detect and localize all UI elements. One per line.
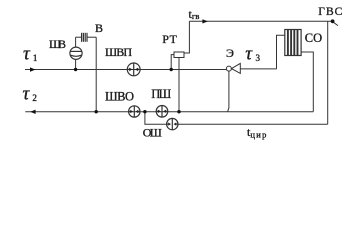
wire circulation line tcir <box>178 123 328 125</box>
node at SHV on tau1 <box>74 68 77 71</box>
wire tau1 supply line <box>25 69 226 71</box>
wire SHV stub up <box>75 37 77 47</box>
node GVS <box>331 19 335 23</box>
wire tgv hot water line <box>189 20 333 22</box>
svg-text:tцир: tцир <box>247 125 266 139</box>
svg-text:ШВП: ШВП <box>105 45 132 59</box>
wire elevator mix pipe <box>228 71 229 112</box>
orifice OSH on circulation line <box>167 118 178 129</box>
orifice SHVO on tau2 <box>129 106 140 117</box>
svg-text:В: В <box>95 21 103 35</box>
wire tau2 return line <box>25 111 313 113</box>
orifice SHV (circle with two chords) <box>70 47 82 59</box>
svg-text:τ: τ <box>23 83 31 104</box>
wire RT to tgv line <box>184 21 189 53</box>
wire to meter B <box>76 36 82 38</box>
svg-text:СО: СО <box>305 31 323 45</box>
orifice PSH on tau2 <box>156 106 168 118</box>
arrow tau2 <box>30 110 35 114</box>
arrow tgv <box>202 19 208 23</box>
node B branch on tau2 <box>95 110 98 113</box>
svg-text:ГВС: ГВС <box>318 6 342 18</box>
svg-text:Э: Э <box>226 46 234 60</box>
elevator E cone <box>232 63 241 73</box>
wire B branch down to tau2 <box>95 37 97 112</box>
wire RT impulse line down <box>178 58 180 112</box>
svg-text:1: 1 <box>33 53 38 63</box>
wire GVS riser <box>327 21 329 124</box>
svg-text:ШВ: ШВ <box>49 37 66 51</box>
svg-text:tгв: tгв <box>189 7 200 21</box>
svg-text:РТ: РТ <box>162 32 177 46</box>
svg-text:τ: τ <box>245 43 253 64</box>
wire after meter B <box>87 36 96 38</box>
node OSH branch on tau2 <box>143 110 146 113</box>
svg-text:2: 2 <box>32 93 37 103</box>
radiator CO <box>285 30 301 56</box>
svg-text:ПШ: ПШ <box>151 87 171 101</box>
orifice SHVP on tau1 <box>127 63 140 76</box>
arrow tau1 <box>30 67 36 71</box>
svg-text:τ: τ <box>23 43 31 64</box>
wire SHV stub down <box>75 59 77 69</box>
elevator E nozzle circle <box>226 66 231 71</box>
node RT tap on tau1 <box>170 68 173 71</box>
svg-text:3: 3 <box>256 53 261 63</box>
node RT line on tau2 <box>177 110 180 113</box>
wire tau1 after elevator <box>240 68 276 70</box>
wire radiator outlet <box>301 52 313 112</box>
wire RT left tap <box>171 55 174 70</box>
wire OSH branch from tau2 <box>145 112 167 125</box>
svg-text:ШВО: ШВО <box>105 90 134 104</box>
water meter B (bars) <box>82 33 87 42</box>
wire riser to radiator CO <box>277 35 286 69</box>
wire GVS tick <box>333 22 338 25</box>
svg-text:ОШ: ОШ <box>143 125 162 139</box>
regulator RT box <box>174 52 184 58</box>
